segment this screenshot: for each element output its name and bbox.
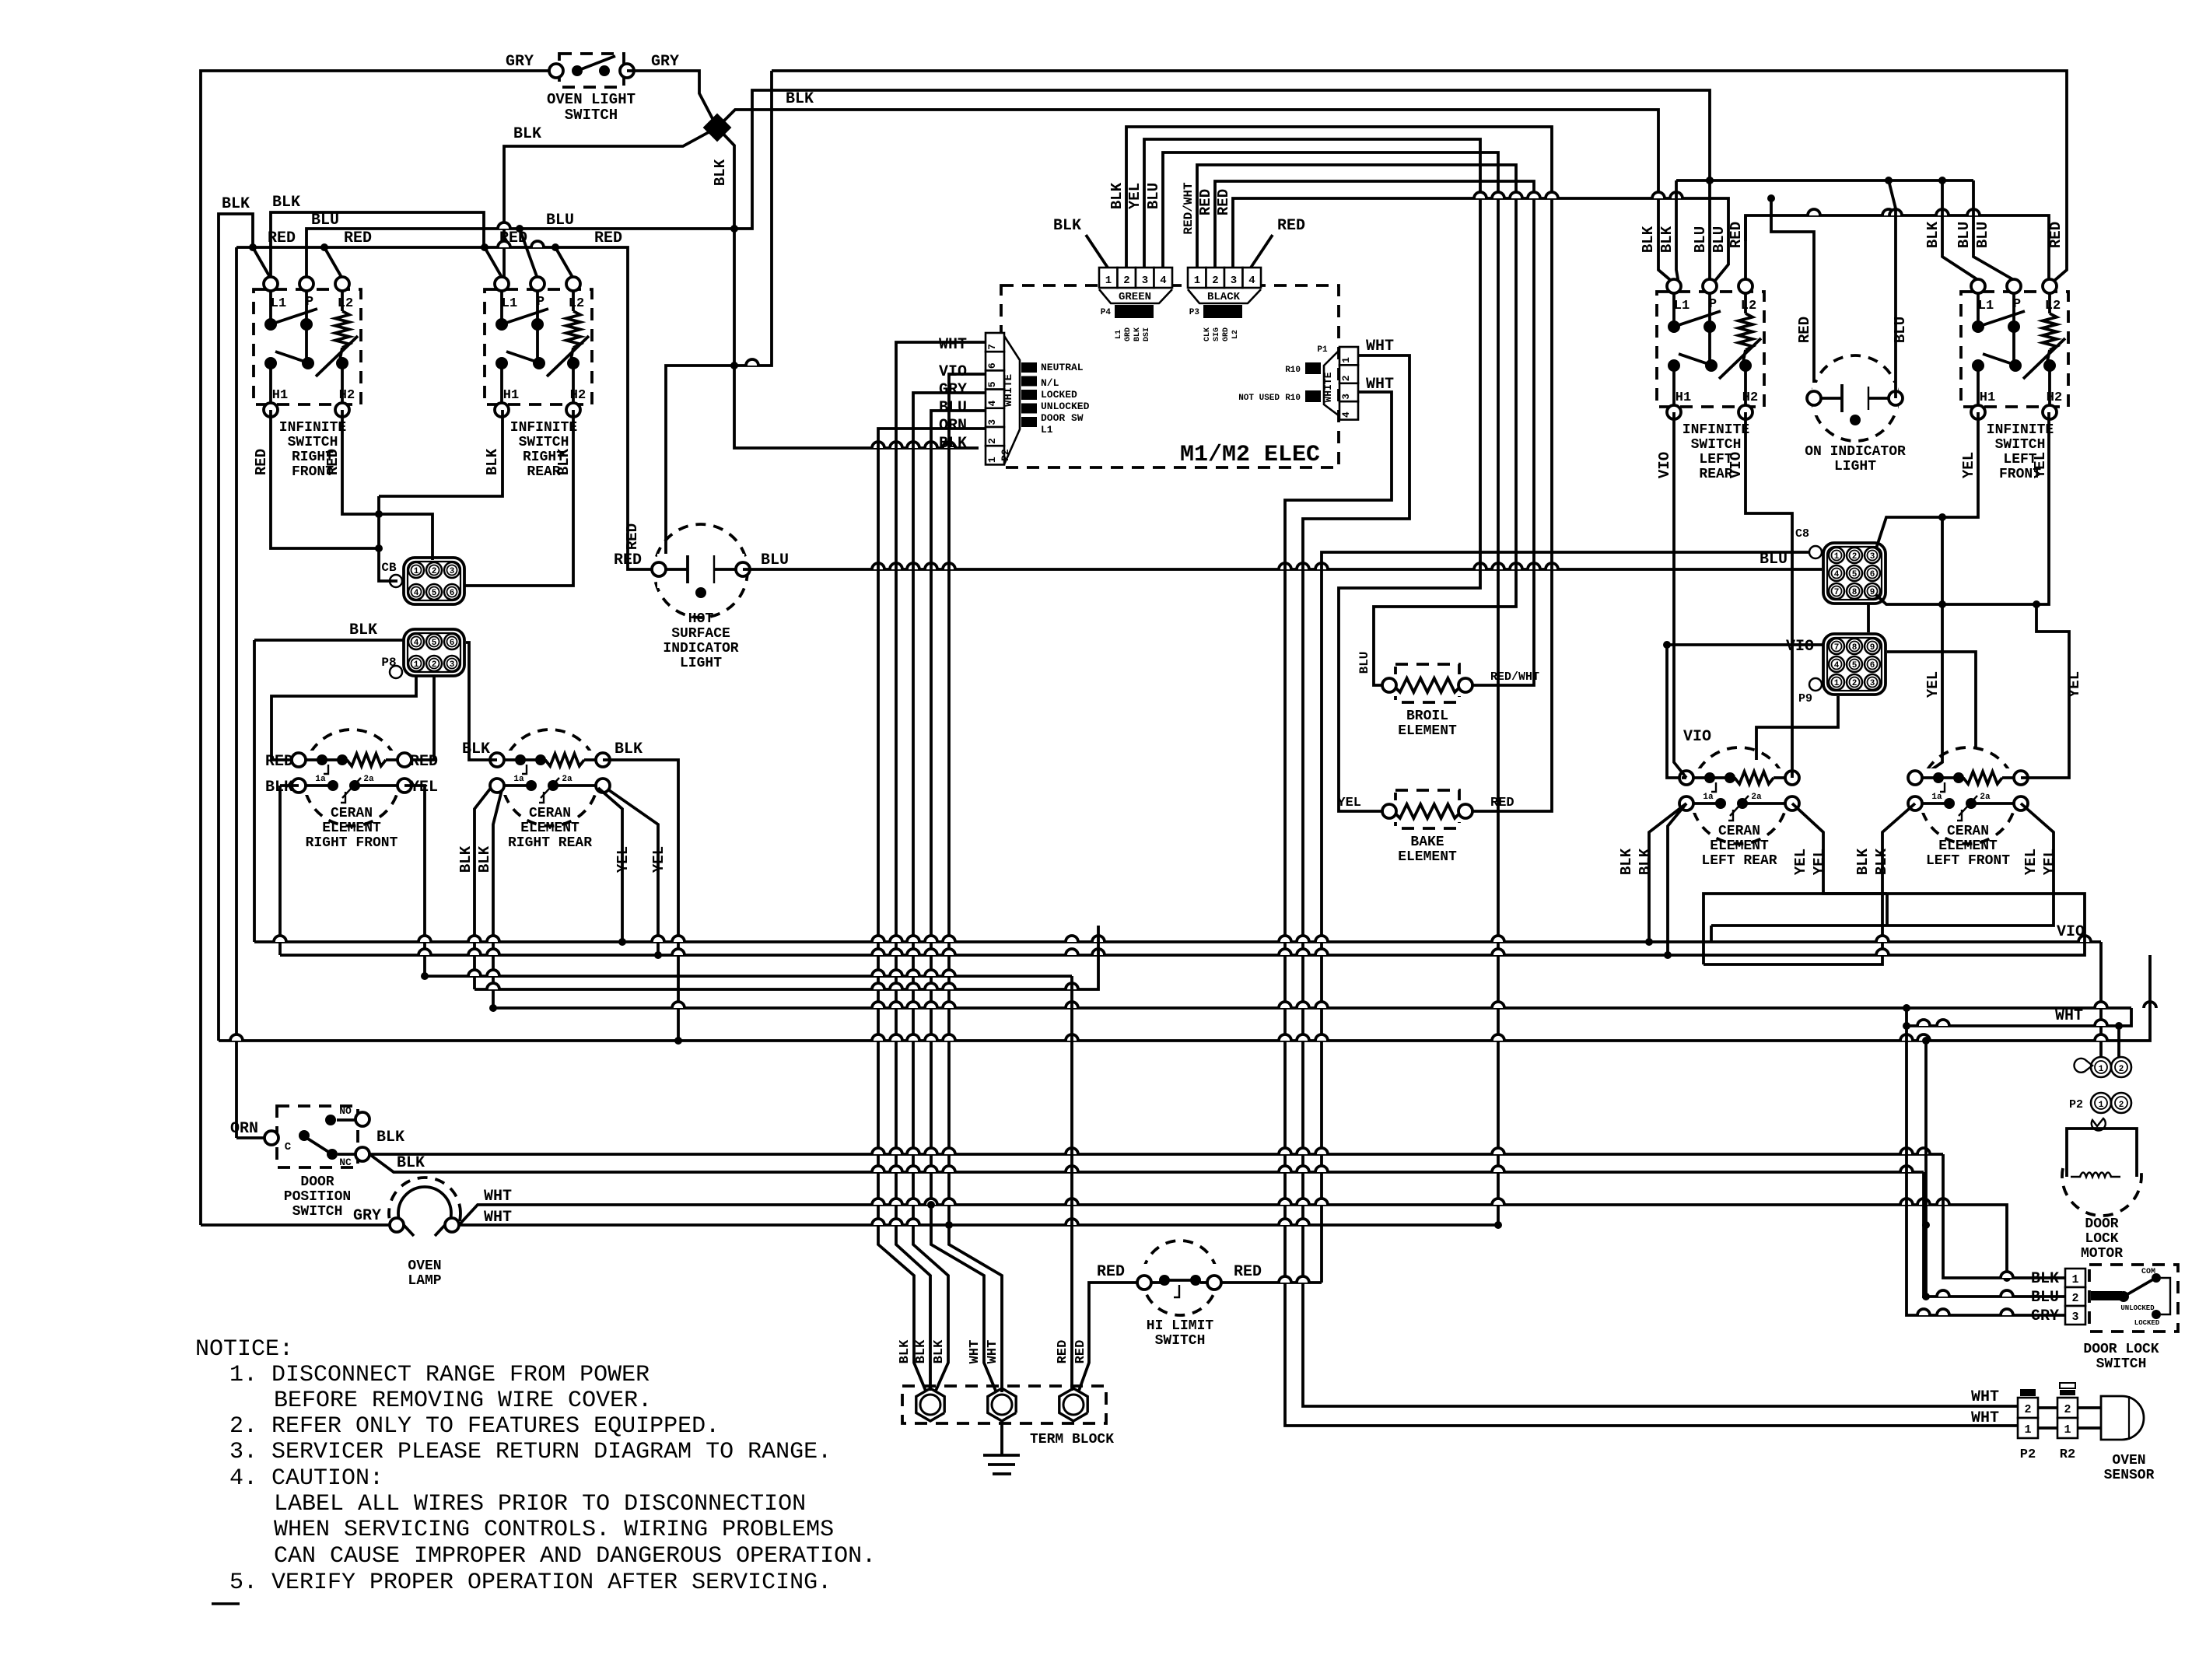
svg-text:BLU: BLU: [546, 212, 574, 229]
svg-text:1a: 1a: [1703, 793, 1714, 802]
svg-text:NEUTRAL: NEUTRAL: [1041, 362, 1084, 373]
svg-text:DOOR: DOOR: [2085, 1216, 2118, 1232]
svg-text:5: 5: [432, 589, 437, 598]
wire ceran rr tr: [603, 760, 678, 1041]
label YEL green vert: [1126, 183, 1143, 209]
svg-text:BLU: BLU: [1711, 226, 1728, 253]
svg-text:ORN: ORN: [230, 1120, 258, 1138]
svg-text:1: 1: [2099, 1065, 2104, 1074]
label BLK door1: [376, 1129, 404, 1146]
svg-text:WHT: WHT: [1366, 338, 1394, 355]
wire clr br down: [1792, 803, 1887, 894]
label BLK ceran rr right: [615, 740, 643, 758]
svg-text:YEL: YEL: [1960, 452, 1977, 478]
svg-text:2: 2: [1852, 679, 1858, 688]
label VIO below H2 lr: [1728, 452, 1745, 478]
svg-text:BLK: BLK: [1108, 182, 1126, 209]
hi limit switch: [1137, 1241, 1221, 1349]
wire GRY lamp feed: [201, 1223, 390, 1227]
svg-text:VIO: VIO: [2057, 923, 2085, 941]
wire ceran rr bl: [474, 788, 502, 1008]
svg-text:3. SERVICER PLEASE RETURN DIAG: 3. SERVICER PLEASE RETURN DIAGRAM TO RAN…: [229, 1439, 832, 1465]
svg-text:BLK: BLK: [376, 1129, 404, 1146]
svg-text:BLK: BLK: [932, 1339, 947, 1363]
svg-text:NC: NC: [339, 1157, 352, 1168]
svg-text:VIO: VIO: [939, 363, 967, 381]
svg-text:3: 3: [1142, 275, 1148, 287]
wire RED bus left vert: [235, 247, 238, 1138]
door lock motor connector P2: [2069, 1093, 2131, 1131]
wire black pin1 to broil left: [1197, 165, 1516, 685]
wire green pin2 to bake right: [1126, 127, 1552, 811]
svg-text:BLK: BLK: [1637, 848, 1654, 875]
label BLK clr1: [1618, 848, 1635, 875]
oven light switch: [547, 54, 636, 124]
label BLK door2: [397, 1154, 425, 1172]
bus y1211 VIO: [254, 923, 2101, 946]
svg-text:ON INDICATOR: ON INDICATOR: [1805, 444, 1906, 460]
wire RED term second: [1070, 976, 1073, 1391]
svg-text:RED: RED: [344, 229, 372, 247]
svg-text:5: 5: [432, 639, 437, 648]
label VIO p9: [1786, 638, 1814, 656]
svg-text:GRY: GRY: [939, 381, 967, 399]
svg-text:NOT USED: NOT USED: [1238, 394, 1280, 403]
svg-text:YEL: YEL: [1126, 183, 1143, 209]
M1/M2 ELEC board box: [1001, 285, 1339, 468]
svg-text:HOT: HOT: [688, 611, 714, 627]
wire BLU into P leftfront: [1973, 180, 2014, 280]
wire clr bl down: [1649, 803, 1686, 955]
svg-text:7: 7: [986, 344, 998, 350]
svg-text:VIO: VIO: [1786, 638, 1814, 656]
label RED ceran rf left: [265, 753, 293, 771]
svg-text:N/L: N/L: [1041, 377, 1059, 389]
svg-text:WHT: WHT: [968, 1340, 982, 1364]
svg-text:RED: RED: [1056, 1340, 1070, 1364]
svg-text:RED: RED: [1215, 189, 1232, 215]
wire dls BLK: [1943, 1154, 2065, 1278]
wire ORN: [236, 1136, 264, 1139]
connector P2 sensor: [2018, 1389, 2038, 1462]
svg-text:4: 4: [1160, 275, 1166, 287]
svg-text:R10: R10: [1285, 366, 1301, 375]
svg-text:RED: RED: [1490, 796, 1514, 810]
label BLU on vert: [1892, 317, 1909, 343]
bus y1228: [280, 894, 2085, 959]
svg-text:ORN: ORN: [939, 417, 967, 435]
svg-text:P2: P2: [2069, 1098, 2083, 1111]
svg-text:SWITCH: SWITCH: [1995, 437, 2046, 453]
svg-text:INFINITE: INFINITE: [1683, 422, 1750, 438]
label RED/WHT broil right: [1490, 670, 1539, 684]
svg-text:BLK: BLK: [272, 194, 300, 212]
label RED on vert: [1796, 317, 1813, 343]
label VIO P2 pin5: [939, 363, 967, 381]
svg-text:RIGHT FRONT: RIGHT FRONT: [306, 835, 398, 851]
ceran element left front: [1908, 747, 2028, 869]
label BLK vertical: [712, 159, 729, 186]
oven sensor bulb: [2101, 1396, 2155, 1483]
wire ceran rf bl: [280, 786, 299, 955]
svg-text:SWITCH: SWITCH: [292, 1204, 343, 1220]
svg-text:BLK: BLK: [1053, 217, 1081, 235]
wire door BLK2: [369, 1154, 1924, 1172]
label RED hot vert: [624, 523, 641, 550]
ceran element right front: [292, 730, 411, 851]
svg-text:DSI: DSI: [1143, 327, 1151, 341]
svg-text:1: 1: [2024, 1423, 2031, 1437]
label BLK mid: [513, 125, 541, 143]
wire ON light RED feed: [1767, 194, 1814, 398]
label GRY lamp: [353, 1207, 381, 1225]
svg-text:2: 2: [2064, 1403, 2071, 1416]
door lock motor: [2062, 1129, 2141, 1262]
wire clf br down: [1711, 803, 2054, 926]
label RED hilimit r: [1234, 1263, 1262, 1281]
svg-text:RED: RED: [324, 449, 341, 475]
svg-text:L2: L2: [1741, 299, 1756, 313]
label RED rr1: [499, 229, 527, 247]
wire bus232 left drop to L1: [1676, 180, 1679, 283]
label RED black3 vert: [1215, 189, 1232, 215]
label BLU dls: [2031, 1289, 2059, 1307]
wire clr loop lower: [1886, 894, 1889, 926]
svg-text:5: 5: [1852, 570, 1858, 579]
svg-text:OVEN: OVEN: [2112, 1453, 2145, 1468]
svg-text:6: 6: [450, 589, 455, 598]
svg-text:BLK: BLK: [914, 1339, 929, 1363]
label WHT motor: [2055, 1007, 2083, 1025]
label RED hilimit l: [1097, 1263, 1125, 1281]
svg-text:GRD: GRD: [1124, 327, 1133, 341]
wire lamp WHT straight: [459, 1219, 1502, 1229]
wire BLK left vert: [253, 640, 256, 942]
wire ceran rr br: [598, 788, 658, 955]
svg-text:L1: L1: [1674, 299, 1690, 313]
svg-text:INDICATOR: INDICATOR: [663, 641, 738, 656]
wire BLK into L1 leftfront: [1942, 180, 1978, 280]
label BLU lf1: [1956, 222, 1973, 248]
label BLK clf2: [1873, 848, 1890, 875]
svg-text:BLU: BLU: [1892, 317, 1909, 343]
wire BLU P2 pin3 corridor: [931, 411, 996, 1391]
svg-text:SWITCH: SWITCH: [2096, 1356, 2147, 1372]
wire bus232: [1676, 177, 1973, 184]
svg-text:BROIL: BROIL: [1406, 709, 1448, 724]
svg-text:UNLOCKED: UNLOCKED: [1041, 401, 1090, 412]
label BLK P8: [349, 621, 377, 639]
svg-text:RED/WHT: RED/WHT: [1182, 182, 1196, 235]
label RED rf1: [268, 229, 296, 247]
label BLU lf2: [1974, 222, 1991, 248]
svg-text:BLK: BLK: [484, 448, 501, 475]
svg-text:P3: P3: [1189, 308, 1200, 317]
wire black pin3 y255: [1233, 192, 1728, 286]
wire junction to right-rear L1: [504, 128, 717, 278]
wire junction to H3 bus: [717, 110, 1674, 283]
svg-text:LIGHT: LIGHT: [680, 656, 722, 671]
label RED rr2: [594, 229, 622, 247]
svg-text:BLU: BLU: [939, 399, 967, 417]
svg-text:LOCK: LOCK: [2085, 1231, 2118, 1247]
on indicator light: [1805, 355, 1906, 474]
svg-text:RIGHT REAR: RIGHT REAR: [508, 835, 592, 851]
label GRY right: [651, 53, 679, 71]
wire L2 leftrear second y277: [1746, 209, 2049, 285]
hot surface indicator light: [652, 524, 750, 671]
svg-text:RED: RED: [1234, 1263, 1262, 1281]
svg-text:RED: RED: [499, 229, 527, 247]
svg-text:C: C: [285, 1141, 292, 1153]
svg-text:P2: P2: [1000, 449, 1011, 461]
svg-text:M1/M2 ELEC: M1/M2 ELEC: [1180, 442, 1320, 468]
wire c8 pin9 to left-front H2 YEL: [1876, 412, 2049, 608]
svg-text:WHEN SERVICING CONTROLS. WIRIN: WHEN SERVICING CONTROLS. WIRING PROBLEMS: [274, 1517, 834, 1543]
svg-text:1: 1: [1105, 275, 1112, 287]
label BLK term3: [932, 1339, 947, 1363]
svg-text:L2: L2: [2045, 299, 2061, 313]
wire H1 red bus right: [772, 71, 2067, 285]
wire P8 pin2 down: [404, 676, 434, 760]
svg-text:2. REFER ONLY TO FEATURES EQUI: 2. REFER ONLY TO FEATURES EQUIPPED.: [229, 1413, 720, 1440]
label BLK below H1 rr: [484, 448, 501, 475]
label BLU broil left: [1357, 652, 1371, 674]
wire stub BLK-L1 rf: [253, 247, 271, 278]
svg-text:GRY: GRY: [506, 53, 534, 71]
svg-text:C8: C8: [1795, 527, 1809, 541]
connector P3 black 4-pin: [1188, 268, 1261, 341]
label RED ceran rf right: [410, 753, 438, 771]
svg-text:WHITE: WHITE: [1322, 372, 1334, 402]
wire motor pin2 feed: [2115, 1022, 2123, 1058]
svg-text:4: 4: [414, 639, 419, 648]
svg-text:LOCKED: LOCKED: [1041, 389, 1077, 401]
svg-text:L1: L1: [1115, 330, 1123, 339]
svg-text:BLK: BLK: [786, 90, 814, 108]
wire rr H2 BLK down: [464, 410, 573, 586]
wire ceran rf br YEL: [404, 786, 425, 976]
svg-text:6: 6: [986, 362, 998, 369]
wire P8 pin1 to ceran rf: [271, 676, 416, 760]
label YEL clr1: [1792, 849, 1809, 875]
svg-text:L2: L2: [569, 296, 584, 311]
label BLK crr2: [476, 845, 493, 873]
bus y1296: [489, 1002, 2156, 1012]
svg-text:3: 3: [1340, 394, 1352, 400]
label RED bake right: [1490, 796, 1514, 810]
wire RED bus: [236, 241, 659, 569]
svg-text:1. DISCONNECT RANGE FROM POWER: 1. DISCONNECT RANGE FROM POWER: [229, 1362, 650, 1388]
label BLK left2: [272, 194, 300, 212]
label WHT lamp2: [484, 1209, 512, 1227]
svg-text:2: 2: [2071, 1292, 2078, 1305]
svg-text:BLU: BLU: [1974, 222, 1991, 248]
label VIO below H1 lr: [1656, 452, 1673, 478]
wire rr H1 BLK down: [379, 410, 502, 496]
wire p9 vio bus: [1663, 641, 1823, 778]
svg-text:BLK: BLK: [555, 448, 573, 475]
svg-text:SWITCH: SWITCH: [288, 435, 338, 450]
svg-text:RED: RED: [1197, 189, 1214, 215]
svg-text:BLK: BLK: [1924, 221, 1942, 248]
infinite switch left front: [1961, 279, 2068, 482]
svg-text:2a: 2a: [1980, 793, 1991, 802]
svg-text:P2: P2: [2020, 1447, 2036, 1462]
label BLK green: [1053, 217, 1081, 235]
ground symbol: [983, 1421, 1020, 1474]
wire rf H2 RED down: [342, 410, 432, 560]
wire black pin4 stub: [1251, 235, 1273, 268]
wire clf bl down: [1704, 803, 1915, 964]
label YEL crr1: [615, 846, 632, 873]
svg-text:3: 3: [450, 567, 455, 576]
label RED below H1 rf: [253, 449, 270, 475]
svg-text:BLK: BLK: [712, 159, 729, 186]
svg-text:LEFT REAR: LEFT REAR: [1701, 853, 1777, 869]
label BLK lf0: [1924, 221, 1942, 248]
svg-text:CLK: CLK: [1203, 327, 1212, 341]
svg-text:HI LIMIT: HI LIMIT: [1147, 1318, 1214, 1334]
svg-text:9: 9: [1870, 588, 1875, 597]
connector CB 6-pin: [381, 558, 464, 604]
svg-text:SWITCH: SWITCH: [1691, 437, 1742, 453]
oven lamp: [389, 1178, 460, 1289]
label GRY dls: [2031, 1307, 2059, 1325]
label BLK clf1: [1854, 848, 1872, 875]
label BLU rf: [311, 212, 339, 229]
wire BLK into P8: [254, 639, 404, 642]
svg-text:R10: R10: [1285, 394, 1301, 403]
wire GRY P2 pin4 corridor: [913, 393, 986, 1391]
svg-text:2: 2: [1340, 375, 1352, 381]
notice text block: [195, 1336, 876, 1604]
svg-text:H1: H1: [503, 388, 519, 403]
svg-text:ELEMENT: ELEMENT: [1398, 849, 1457, 865]
svg-text:CERAN: CERAN: [529, 806, 571, 821]
svg-text:RED: RED: [1097, 1263, 1125, 1281]
svg-text:DOOR: DOOR: [300, 1174, 334, 1190]
svg-text:BLK: BLK: [397, 1154, 425, 1172]
svg-text:YEL: YEL: [1811, 849, 1828, 875]
svg-text:1a: 1a: [315, 775, 326, 784]
wire BLU bus right front: [306, 90, 1714, 280]
label BLK crr1: [457, 845, 474, 873]
svg-text:BLU: BLU: [1145, 183, 1162, 209]
label WHT term1: [968, 1340, 982, 1364]
wire WHT pair end: [1922, 1037, 1930, 1300]
wire ceran rr tl to P8: [466, 642, 497, 760]
svg-text:RED: RED: [268, 229, 296, 247]
svg-text:LOCKED: LOCKED: [2134, 1319, 2160, 1327]
svg-text:RED: RED: [265, 753, 293, 771]
label BLU rr: [546, 212, 574, 229]
svg-text:BLU: BLU: [1357, 652, 1371, 674]
svg-text:GREEN: GREEN: [1119, 291, 1151, 303]
connector C8 9-pin: [1795, 527, 1886, 604]
svg-text:VIO: VIO: [1656, 452, 1673, 478]
door position switch: [264, 1105, 369, 1220]
label BLK green2 vert: [1108, 182, 1126, 209]
svg-text:GRD: GRD: [1222, 327, 1231, 341]
svg-text:7: 7: [1834, 588, 1840, 597]
bus y1255: [421, 970, 1072, 980]
svg-text:DOOR SW: DOOR SW: [1041, 412, 1084, 424]
svg-text:2a: 2a: [1751, 793, 1762, 802]
label BLK clr2: [1637, 848, 1654, 875]
svg-text:LAMP: LAMP: [408, 1273, 441, 1289]
svg-text:1: 1: [414, 567, 419, 576]
svg-text:RED/WHT: RED/WHT: [1490, 670, 1539, 684]
svg-text:5. VERIFY PROPER OPERATION AFT: 5. VERIFY PROPER OPERATION AFTER SERVICI…: [229, 1570, 832, 1596]
svg-text:1a: 1a: [513, 775, 524, 784]
svg-text:YEL: YEL: [615, 846, 632, 873]
svg-text:2: 2: [1123, 275, 1129, 287]
wire left ceran inner loop: [1704, 894, 1887, 964]
wire door BLK1: [369, 1148, 1943, 1154]
svg-text:LABEL ALL WIRES PRIOR TO DISCO: LABEL ALL WIRES PRIOR TO DISCONNECTION: [274, 1491, 806, 1517]
svg-text:INFINITE: INFINITE: [510, 420, 578, 436]
label WHT P2 pin7: [939, 336, 967, 354]
svg-text:CAN CAUSE IMPROPER AND DANGERO: CAN CAUSE IMPROPER AND DANGEROUS OPERATI…: [274, 1543, 876, 1570]
infinite switch left rear: [1657, 279, 1764, 482]
label BLK top: [786, 90, 814, 108]
label RED below H2 rf: [324, 449, 341, 475]
svg-text:NO: NO: [339, 1105, 352, 1117]
svg-text:BLK: BLK: [1658, 226, 1676, 253]
svg-text:BLK: BLK: [1640, 226, 1657, 253]
label WHT term2: [986, 1340, 1000, 1364]
svg-text:4: 4: [1834, 570, 1840, 579]
label YEL ceran rf right: [410, 779, 438, 796]
svg-text:BLK: BLK: [898, 1339, 912, 1363]
label RED term2: [1073, 1340, 1088, 1364]
svg-text:5: 5: [1852, 661, 1858, 670]
svg-text:BLK: BLK: [513, 125, 541, 143]
label RED lr: [1728, 222, 1745, 248]
label YEL crr2: [650, 846, 667, 873]
label RED/WHT vert: [1182, 182, 1196, 235]
wire hilimit right: [1221, 1276, 1322, 1283]
bus y1338: [219, 955, 2150, 1045]
svg-text:RED: RED: [624, 523, 641, 550]
svg-text:INFINITE: INFINITE: [1987, 422, 2054, 438]
label BLK term1: [898, 1339, 912, 1363]
svg-text:1: 1: [1340, 357, 1352, 363]
label WHT sensor1: [1971, 1388, 1999, 1406]
svg-text:1: 1: [1834, 679, 1840, 688]
label BLK below H2 rr: [555, 448, 573, 475]
svg-text:LEFT FRONT: LEFT FRONT: [1926, 853, 2010, 869]
svg-text:BLU: BLU: [311, 212, 339, 229]
label RED hot light: [614, 551, 642, 569]
wire lamp WHT up: [459, 1199, 2011, 1282]
label WHT P1 pin1: [1366, 338, 1394, 355]
svg-text:YEL: YEL: [1924, 671, 1942, 698]
door lock motor connector top: [2074, 1057, 2131, 1077]
wire stub L2 rr: [485, 247, 573, 278]
label BLK ceran rf left: [265, 779, 293, 796]
door lock switch: [2065, 1265, 2178, 1372]
svg-text:5: 5: [986, 381, 998, 387]
svg-text:L2: L2: [1231, 330, 1240, 339]
svg-text:BLU: BLU: [1692, 226, 1709, 253]
label ORN P2 pin2: [939, 417, 967, 435]
svg-text:P9: P9: [1798, 692, 1812, 705]
wire c8 pin3 to left-front H1 YEL: [1876, 412, 1978, 548]
wire VIO P2 pin5 corridor: [949, 374, 1002, 1392]
svg-text:3: 3: [1870, 679, 1875, 688]
